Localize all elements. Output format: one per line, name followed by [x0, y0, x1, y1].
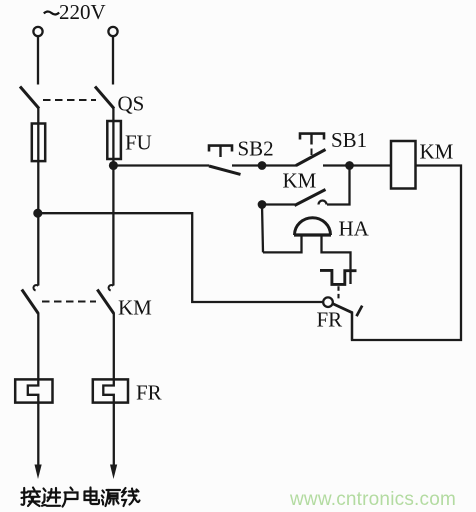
svg-text:HA: HA — [339, 217, 370, 241]
svg-text:KM: KM — [118, 296, 152, 320]
svg-text:KM: KM — [283, 169, 317, 193]
svg-text:FR: FR — [136, 381, 162, 405]
svg-text:220V: 220V — [59, 0, 106, 24]
svg-text:SB1: SB1 — [331, 128, 367, 152]
svg-text:FU: FU — [125, 131, 152, 155]
svg-text:KM: KM — [420, 140, 454, 164]
svg-text:QS: QS — [118, 91, 145, 115]
svg-text:SB2: SB2 — [238, 137, 274, 161]
svg-text:www.cntronics.com: www.cntronics.com — [289, 489, 456, 510]
svg-text:FR: FR — [317, 308, 343, 332]
